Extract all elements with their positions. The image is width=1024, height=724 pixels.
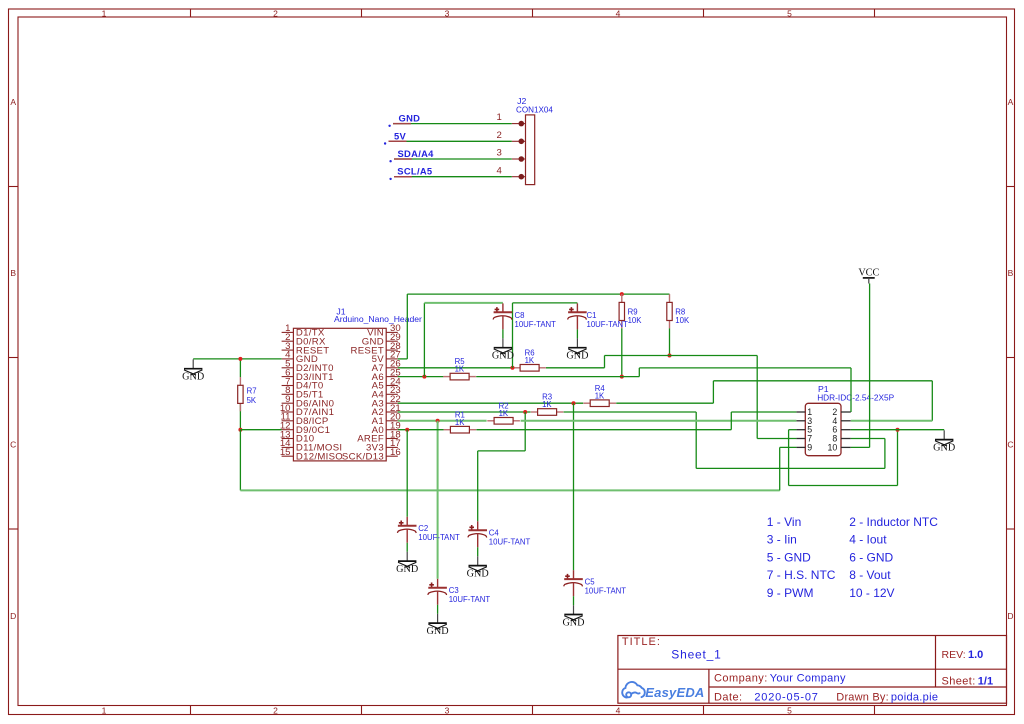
svg-text:3: 3 [445,706,450,716]
wire 5V top rail [407,293,669,295]
wire Vout up to P1 pin8 [884,439,886,469]
junction [405,428,409,432]
title block texts [622,636,993,703]
svg-text:1/1: 1/1 [978,675,993,687]
wire Vout to P1 pin8 [851,438,885,440]
svg-text:1K: 1K [455,365,465,374]
svg-text:GND: GND [427,626,449,637]
P1 pin 3 [796,416,812,426]
svg-text:D: D [1007,611,1013,621]
connector J1 Arduino_Nano_Header [293,306,422,461]
J1 pin 1 D1/TX [282,323,325,338]
svg-text:4: 4 [616,9,621,19]
svg-text:C3: C3 [449,586,459,595]
junction [620,292,624,296]
wire A3 over P1 [713,380,932,382]
capacitor C8 10UF-TANT [493,303,556,329]
capacitor C3 10UF-TANT [428,579,491,605]
resistor R8 10K [667,294,690,328]
svg-text:GND: GND [396,564,418,575]
svg-text:C: C [10,440,16,450]
wire A6 from J1 pin25 [398,376,444,378]
title block [618,636,1007,704]
svg-text:2: 2 [273,9,278,19]
wire A0 to P1 pin1 [731,411,796,413]
wire A3 down right of P1 [931,381,933,421]
svg-text:GND: GND [182,372,204,383]
svg-text:Date:: Date: [714,692,743,704]
wire A1 to P1 pin3 [521,420,797,422]
svg-text:GND: GND [566,351,588,362]
wire P1 pin5 GND [789,429,797,431]
svg-text:2 - Inductor NTC: 2 - Inductor NTC [849,515,938,529]
wire A0 from J1 pin19 [398,429,444,431]
wire A3 right of R4 [616,402,713,404]
net label 5V [384,130,407,144]
svg-text:10UF-TANT: 10UF-TANT [585,587,627,596]
J1 pin 22 A3 [372,394,401,409]
wire C1 to ground [576,329,578,338]
P1 pin 6 [832,425,850,435]
wire net SDA/A4 to J2 [394,158,512,160]
svg-text:15: 15 [280,447,291,458]
svg-text:1: 1 [496,112,501,123]
junction [238,357,242,361]
svg-text:3 - Iin: 3 - Iin [767,533,797,547]
wire C3 branch down [437,421,439,579]
svg-text:Sheet:: Sheet: [942,675,976,687]
junction [436,419,440,423]
J1 pin 18 AREF [357,429,400,444]
J1 pin 20 A1 [372,412,401,427]
J1 pin 2 D0/RX [282,332,326,347]
svg-text:10UF-TANT: 10UF-TANT [418,533,460,542]
junction [620,375,624,379]
wire C2 to ground [406,543,408,552]
wire C1 branch up [512,303,514,368]
svg-text:5 - GND: 5 - GND [767,550,811,564]
wire J1 pin12 D9/OC1 left [240,429,281,431]
wire A6 down to P1 pin2 [850,368,852,412]
wire A1 from J1 pin20 [398,420,487,422]
junction [511,366,515,370]
wire J1 pin4 GND to ground symbol [193,358,281,360]
J1 pin 21 A2 [372,403,401,418]
pin legend text [767,515,938,600]
J2 pin 3 [496,148,525,162]
wire A6 right of R5 [476,376,639,378]
svg-text:10UF-TANT: 10UF-TANT [449,595,491,604]
wire 5V up [406,294,408,359]
ground under C3 [427,614,449,637]
J1 pin 7 D4/T0 [282,376,324,391]
J1 pin 8 D5/T1 [282,385,324,400]
J1 pin 24 A5 [372,376,402,391]
svg-text:HDR-IDC-2.54-2X5P: HDR-IDC-2.54-2X5P [817,392,894,402]
P1 pin 9 [796,442,812,452]
wire C4 branch down 2 [477,451,479,521]
svg-text:Your Company: Your Company [770,673,846,685]
svg-text:C2: C2 [418,524,428,533]
svg-text:10UF-TANT: 10UF-TANT [489,538,531,547]
wire A7 to P1 pin7 [757,438,796,440]
J1 pin 13 D10 [280,429,315,444]
J2 pin 2 [496,130,525,144]
J1 pin 19 A0 [372,421,401,436]
wire C3 to ground [437,605,439,614]
wire R9 bottom to A6 row [621,328,623,376]
resistor R6 1K [513,348,546,371]
wire A7 right of R6 [546,367,605,369]
svg-text:10K: 10K [628,316,643,325]
junction [896,428,900,432]
svg-text:Arduino_Nano_Header: Arduino_Nano_Header [334,314,422,324]
P1 pin 1 [796,407,812,417]
P1 pin 5 [796,425,812,435]
ground under C8 [492,338,514,361]
svg-text:5V: 5V [394,130,407,141]
J1 pin 15 D12/MISO [280,447,343,462]
wire net GND to J2 [393,123,512,125]
ground under C4 [467,556,489,579]
wire A7 upper run [605,355,758,357]
svg-text:10UF-TANT: 10UF-TANT [515,320,557,329]
wire A0 jog up [730,412,732,430]
wire Vout bottom run [696,467,885,469]
svg-text:1K: 1K [499,409,509,418]
wire C4 branch down [524,412,526,451]
svg-text:GND: GND [562,617,584,628]
J1 pin 10 D7/AIN1 [280,403,334,418]
svg-text:GND: GND [467,568,489,579]
svg-text:C: C [1007,440,1013,450]
wire R7 to D9 row [239,403,241,430]
J1 pin 12 D9/0C1 [280,421,330,436]
wire A7 down to P1 pin7 [756,356,758,439]
wire PWM down [239,430,241,491]
J2 pin 4 [496,165,525,179]
svg-text:A: A [10,97,16,107]
svg-text:B: B [1008,268,1014,278]
wire GND bottom run [789,485,898,487]
ground under C2 [396,552,418,575]
resistor R3 1K [531,393,564,416]
wire A3 to P1 pin4 [851,420,933,422]
svg-text:7 - H.S. NTC: 7 - H.S. NTC [767,568,836,582]
wire to C1 top [513,302,578,304]
resistor R2 1K [487,401,520,424]
wire C5 branch down [573,403,575,570]
svg-text:REV:: REV: [942,649,966,661]
wire P1 pin6 GND to ground [851,429,944,431]
wire A6 jog up [638,368,640,377]
J1 pin 6 D3/INT1 [282,367,334,382]
svg-text:GND: GND [492,351,514,362]
svg-text:B: B [10,268,16,278]
svg-text:4: 4 [616,706,621,716]
wire C4 to ground [477,547,479,556]
J1 pin 9 D6/AIN0 [282,394,335,409]
J1 pin 16 SCK/D13 [342,447,401,462]
svg-text:SCL/A5: SCL/A5 [397,166,432,177]
junction [422,375,426,379]
svg-text:Company:: Company: [714,673,768,685]
resistor R4 1K [583,384,616,407]
P1 pin 7 [796,434,812,444]
J1 pin 4 GND [282,350,319,365]
svg-text:6 - GND: 6 - GND [849,550,893,564]
wire A7 jog up [604,356,606,368]
net label GND [388,113,420,127]
svg-text:GND: GND [399,113,421,124]
J1 pin 5 D2/INT0 [282,359,334,374]
svg-text:poida.pie: poida.pie [891,692,938,704]
junction [668,354,672,358]
wire A3 from J1 pin22 [398,402,583,404]
P1 pin 8 [832,434,850,444]
J1 pin 28 RESET [351,341,401,356]
wire Vout down [695,412,697,468]
wire PWM up to P1 pin9 [779,447,781,490]
EasyEDA logo [622,682,645,698]
P1 pin 10 [828,442,851,452]
svg-text:TITLE:: TITLE: [622,636,661,648]
svg-text:5K: 5K [247,396,257,405]
svg-text:C1: C1 [587,311,597,320]
J1 pin 26 A7 [372,359,401,374]
J1 pin 30 VIN [367,323,401,338]
wire to C8 top [424,302,503,304]
ground under C1 [566,338,588,361]
svg-text:C5: C5 [585,577,596,586]
J1 pin 17 3V3 [366,438,401,453]
J1 pin 3 RESET [282,341,330,356]
svg-text:4: 4 [496,165,502,176]
wire A2 right of R3 [564,411,697,413]
J1 pin 25 A6 [372,367,401,382]
svg-text:D: D [10,611,16,621]
svg-text:R7: R7 [247,387,257,396]
ground under C5 [562,605,584,628]
connector P1 HDR-IDC-2.54-2X5P [805,384,894,456]
connector J2 CON1X04 [516,96,553,184]
svg-text:2: 2 [496,130,501,141]
svg-text:3: 3 [496,148,501,159]
ground left of J1 [182,359,204,382]
net label SCL/A5 [389,166,432,180]
svg-text:1.0: 1.0 [968,649,983,661]
svg-text:10 - 12V: 10 - 12V [849,586,894,600]
svg-text:9: 9 [807,442,812,452]
wire C8 branch up [423,303,425,377]
resistor R9 10K [619,294,642,328]
J1 pin 11 D8/ICP [281,412,329,427]
P1 pin 4 [832,416,850,426]
svg-text:Drawn By:: Drawn By: [836,692,889,704]
svg-text:A: A [1008,97,1014,107]
svg-text:10UF-TANT: 10UF-TANT [587,320,629,329]
resistor R5 1K [443,357,476,380]
J1 pin 29 GND [362,332,401,347]
svg-text:C4: C4 [489,529,500,538]
svg-text:1K: 1K [542,400,552,409]
capacitor C5 10UF-TANT [564,570,627,596]
junction [238,428,242,432]
junction [523,410,527,414]
svg-text:5: 5 [787,706,792,716]
svg-text:8 - Vout: 8 - Vout [849,568,891,582]
wire A3 up [712,381,714,403]
svg-text:3: 3 [445,9,450,19]
wire PWM bus [240,489,779,491]
svg-text:Sheet_1: Sheet_1 [671,647,721,661]
svg-text:C8: C8 [515,311,525,320]
svg-text:1: 1 [102,706,107,716]
svg-text:4 - Iout: 4 - Iout [849,533,887,547]
power VCC [858,268,879,284]
J1 pin 23 A4 [372,385,401,400]
svg-text:1K: 1K [525,356,535,365]
capacitor C1 10UF-TANT [568,303,629,329]
wire C2 branch down [406,430,408,517]
wire J1 pin27 5V [398,358,408,360]
wire A0 right of R1 [476,429,731,431]
svg-text:SDA/A4: SDA/A4 [398,148,435,159]
wire C5 to ground [573,596,575,605]
resistor R1 1K [444,410,477,433]
wire GND up to pin6 row [897,430,899,486]
junction [572,401,576,405]
wire P1 pin10 to VCC [851,446,870,448]
wire A2 from J1 pin21 [398,411,531,413]
svg-text:1: 1 [102,9,107,19]
svg-text:1 - Vin: 1 - Vin [767,515,801,529]
svg-text:10K: 10K [675,316,690,325]
wire VCC down to P1 pin10 [869,284,871,448]
J1 pin 27 5V [372,350,401,365]
ground right of P1 [933,430,955,453]
svg-text:GND: GND [933,442,955,453]
wire A7 from J1 pin26 [398,367,514,369]
svg-text:SCK/D13: SCK/D13 [342,451,384,462]
svg-text:16: 16 [390,447,401,458]
svg-text:EasyEDA: EasyEDA [645,685,704,700]
wire C4 branch left [478,450,526,452]
svg-text:9 - PWM: 9 - PWM [767,586,814,600]
wire GND row down to R7 [239,359,241,377]
wire net SCL/A5 to J2 [394,176,512,178]
svg-text:2: 2 [273,706,278,716]
P1 pin 2 [832,407,850,417]
svg-text:1K: 1K [455,418,465,427]
svg-text:5: 5 [787,9,792,19]
wire PWM to P1 pin9 [780,446,797,448]
resistor R7 5K [238,377,257,411]
capacitor C2 10UF-TANT [397,517,460,543]
svg-text:10: 10 [828,442,838,452]
svg-text:CON1X04: CON1X04 [516,106,553,115]
svg-text:1K: 1K [595,391,605,400]
wire A6 upper run to P1 [639,367,851,369]
wire R8 bottom to A7 jog [669,328,671,355]
net label SDA/A4 [389,148,434,162]
J1 pin 14 D11/MOSI [280,438,343,453]
svg-text:D12/MISO: D12/MISO [296,451,343,462]
wire net 5V to J2 [389,140,512,142]
svg-text:2020-05-07: 2020-05-07 [754,692,818,704]
wire C8 to ground [502,329,504,338]
svg-text:VCC: VCC [858,268,879,279]
J2 pin 1 [496,112,525,126]
wire GND down [788,430,790,486]
capacitor C4 10UF-TANT [468,521,531,547]
